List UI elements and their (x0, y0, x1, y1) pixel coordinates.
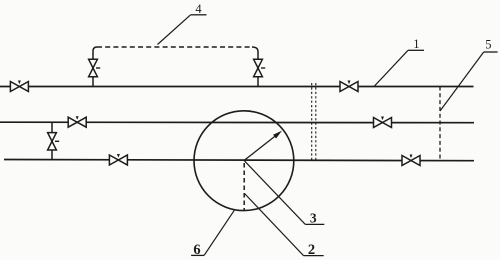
svg-text:5: 5 (485, 38, 491, 52)
svg-text:3: 3 (310, 211, 317, 226)
svg-text:4: 4 (195, 2, 202, 16)
svg-text:2: 2 (308, 242, 315, 258)
svg-text:6: 6 (193, 242, 200, 258)
svg-text:1: 1 (413, 37, 419, 51)
